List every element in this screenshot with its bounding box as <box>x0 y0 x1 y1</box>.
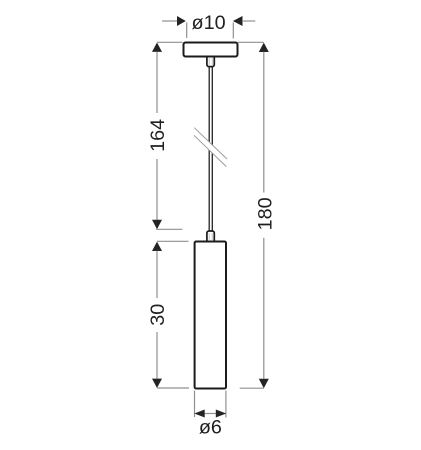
dimension line 180 lower segment <box>263 238 265 379</box>
dimension line 180 upper segment <box>263 52 265 193</box>
extension line ø6 left <box>194 391 196 418</box>
arrow 164 bottom (pointing down) <box>152 220 162 229</box>
extension line ø10 left <box>186 23 188 39</box>
cable break upper diagonal <box>194 128 227 159</box>
lamp cylinder body <box>195 242 226 389</box>
cable left line <box>208 67 210 231</box>
extension line ø10 right <box>232 23 234 39</box>
dimension line 164 lower segment <box>156 159 158 220</box>
extension line 164 top <box>157 41 183 43</box>
extension line ø6 right <box>225 391 227 418</box>
dimension line tail left of ø10 <box>162 20 178 22</box>
dimension line 164 upper segment <box>156 52 158 114</box>
dimension line 30 upper segment <box>156 251 158 298</box>
cable right line <box>211 67 213 231</box>
arrow 164 top (pointing up) <box>152 43 162 52</box>
arrow 30 top (pointing up) <box>152 242 162 251</box>
arrow ø10 right (pointing left) <box>233 16 243 26</box>
lamp cord connector <box>207 231 214 243</box>
extension line 30 bottom <box>157 387 189 389</box>
dimension line ø6 middle <box>204 413 217 415</box>
arrow ø10 left (pointing right) <box>177 16 186 26</box>
cable faint segment inside connector <box>208 233 210 240</box>
arrow 180 bottom (pointing down) <box>259 379 269 388</box>
extension line 30 top <box>157 240 189 242</box>
dimension line tail right of ø10 <box>242 20 255 22</box>
svg-text:30: 30 <box>147 304 169 326</box>
extension line 180 bottom <box>240 387 264 389</box>
cable break white band <box>194 128 227 167</box>
canopy (ceiling cap) <box>184 43 238 57</box>
cable faint segment inside grip <box>208 58 210 65</box>
extension line 164 bottom <box>156 228 182 230</box>
dimension line 30 lower segment <box>156 332 158 379</box>
arrow 180 top (pointing up) <box>259 43 269 52</box>
arrow ø6 right (pointing right) <box>216 410 226 418</box>
cable break lower diagonal <box>194 135 226 166</box>
svg-text:180: 180 <box>254 197 276 230</box>
extension line 180 top <box>238 41 264 43</box>
svg-text:ø10: ø10 <box>192 12 226 34</box>
svg-text:164: 164 <box>147 119 169 152</box>
arrow 30 bottom (pointing down) <box>152 379 162 388</box>
arrow ø6 left (pointing left) <box>194 410 204 418</box>
canopy cable grip <box>207 54 214 67</box>
svg-text:ø6: ø6 <box>199 416 222 438</box>
